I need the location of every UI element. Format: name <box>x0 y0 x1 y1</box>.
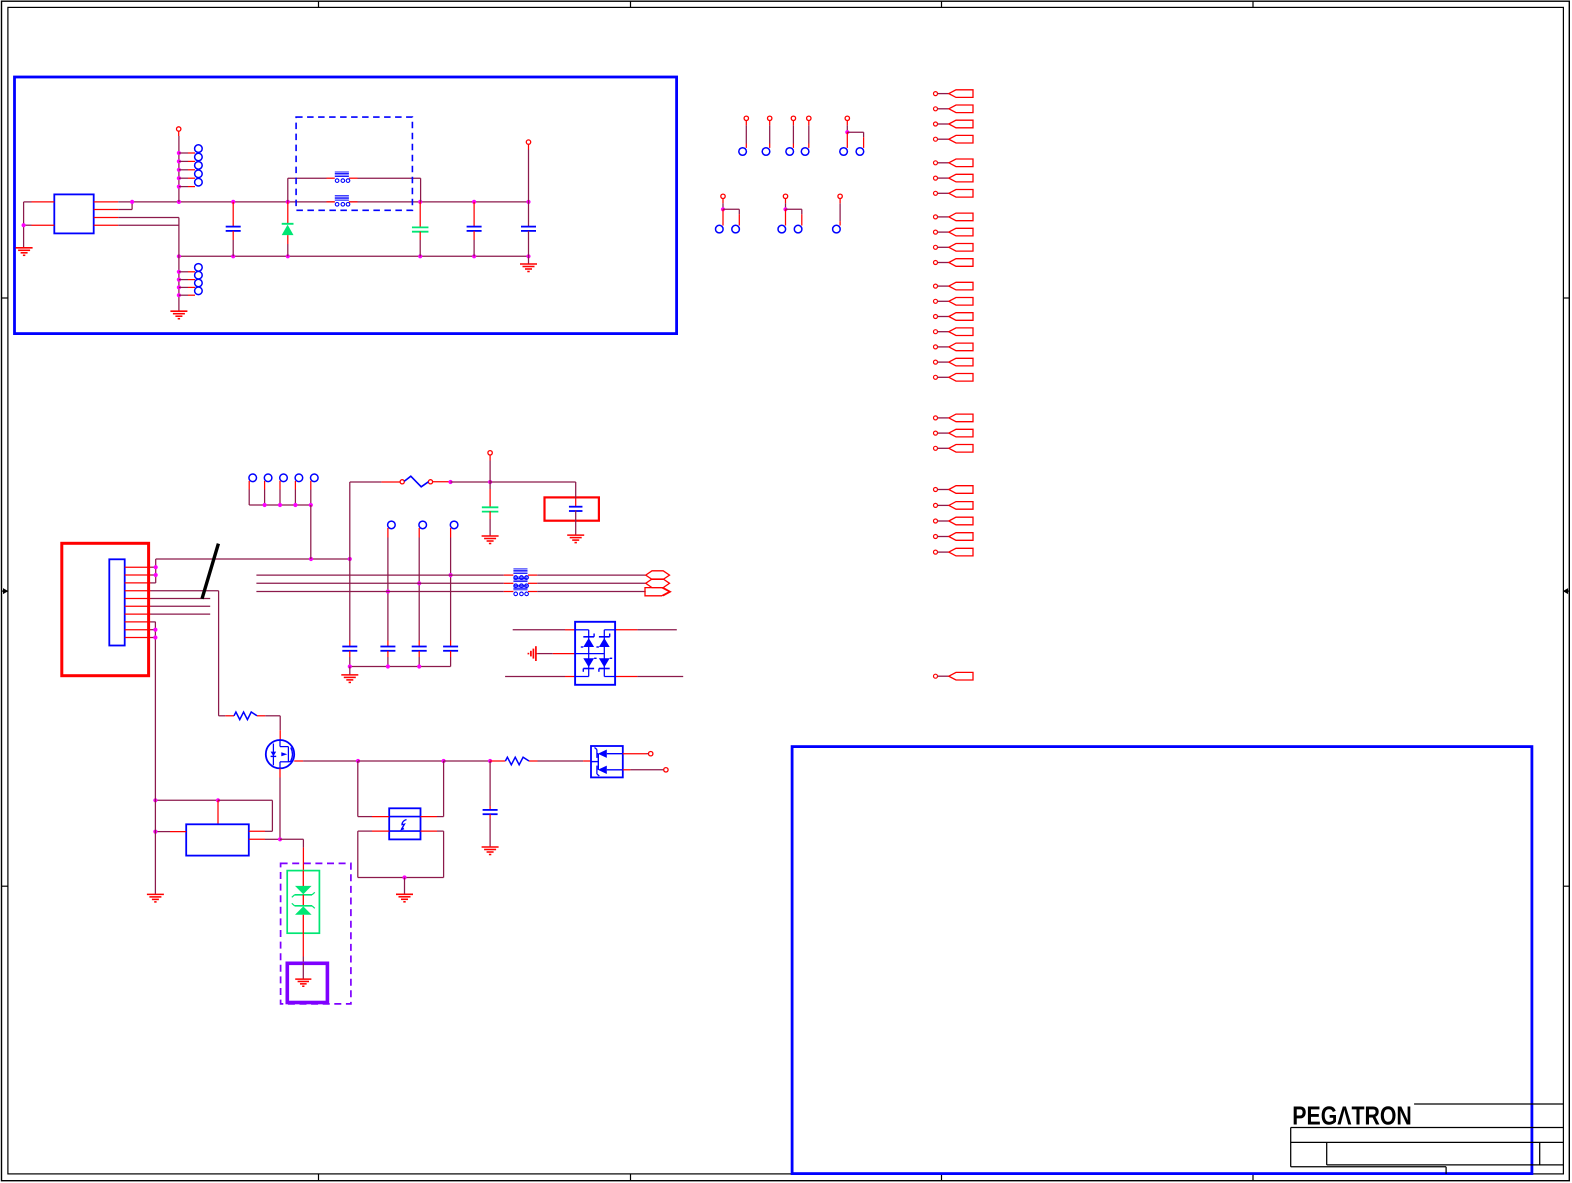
net flag N21 <box>934 445 974 453</box>
net flag N17 <box>934 358 974 366</box>
wire mains top <box>156 557 352 561</box>
wire J2 node vertical <box>154 559 158 583</box>
bridge diode DA <box>581 634 594 648</box>
wire phase A <box>256 574 645 576</box>
wire U2 left pin <box>153 830 186 834</box>
connector pin CN2 <box>762 116 772 155</box>
wire left rail <box>153 622 157 894</box>
wire J1 pin L2 <box>24 224 55 226</box>
wire zener mid <box>302 895 304 906</box>
no-connect slash <box>202 544 218 599</box>
wire cap bus <box>348 664 451 668</box>
bridge diode DC <box>583 658 596 672</box>
off-page flag W2 <box>646 579 670 588</box>
PEGATRON logo <box>1292 1102 1412 1130</box>
net flag N20 <box>934 429 974 437</box>
resistor R2 <box>490 757 591 765</box>
right centre arrow <box>1563 588 1568 594</box>
wire R1 to Q1 <box>257 716 280 740</box>
clamp dashed outline <box>281 863 351 1004</box>
net flag N5 <box>934 159 974 167</box>
wire J1 pin R2 <box>94 202 132 210</box>
title line C <box>1291 1141 1564 1143</box>
transistor Q1 body <box>266 740 294 768</box>
choke T1 winding B <box>335 196 350 206</box>
wire node vertical <box>177 218 181 311</box>
wire J1 left vertical <box>22 202 26 248</box>
wire J1 pin R4 <box>94 224 179 226</box>
border tick marks left/right <box>2 298 1570 886</box>
X-cap highlight box <box>545 497 599 520</box>
wire gate-drive feed <box>219 715 234 717</box>
off-page flag W1 <box>646 571 670 580</box>
wire U3 bottom rail <box>358 875 444 879</box>
wire J1 pin R3 <box>94 217 179 219</box>
wire J2 pin4 <box>151 591 219 716</box>
net flag N3 <box>934 120 974 128</box>
title line B <box>1291 1127 1564 1129</box>
diode D1 <box>282 202 294 256</box>
connector pin CN1 <box>739 116 749 155</box>
wire J2 pin5 <box>151 598 211 600</box>
net flag N11 <box>934 259 974 267</box>
off-page flag W3 <box>645 588 671 596</box>
pin header P2 (4 pins) <box>179 264 202 296</box>
svg-text:PEGΛTRON: PEGΛTRON <box>1292 1102 1412 1130</box>
wire return bus <box>177 254 531 258</box>
diode pack D2 outline <box>591 746 623 777</box>
net flag N4 <box>934 135 974 143</box>
resistor R1 <box>234 712 257 720</box>
connector pin CN4 <box>801 116 811 155</box>
wire bridge bottom right <box>615 676 683 678</box>
title line E <box>1291 1166 1446 1168</box>
wire ctrl vcc pin <box>217 800 219 824</box>
isolated ground box <box>287 963 327 1002</box>
wire phase B <box>256 582 645 584</box>
capacitor C8 <box>412 641 427 667</box>
capacitor C1 <box>226 202 241 256</box>
title vertical V3 <box>1539 1142 1541 1165</box>
terminal TP3 <box>488 451 492 482</box>
wire J2 pin2 <box>151 574 156 576</box>
connector J2 pins <box>125 567 151 637</box>
wire fuse right <box>433 480 576 484</box>
connector J2 body <box>109 559 124 645</box>
ground G3 <box>520 264 537 272</box>
wire U3 left top <box>358 761 389 817</box>
net flag N10 <box>934 244 974 252</box>
terminal TP5 <box>664 768 668 772</box>
wire bridge mid <box>537 653 575 655</box>
connector pin CN6 (dual) <box>716 194 740 233</box>
wire J1 pin L1 <box>24 201 55 203</box>
pin header P3 (5 pins) <box>249 474 318 505</box>
net flag N22 <box>934 486 974 494</box>
net flag N26 <box>934 548 974 556</box>
ground G2 <box>170 311 187 319</box>
net flag N16 <box>934 343 974 351</box>
connector pin CN8 <box>833 194 843 233</box>
wire header P3 bus <box>249 503 313 507</box>
capacitor C11 <box>483 761 498 847</box>
bridge diode DD <box>599 658 612 672</box>
choke T1 dashed outline <box>296 117 412 210</box>
wire gate to clamp <box>280 839 303 870</box>
net flag N15 <box>934 328 974 336</box>
wire header vertical <box>177 136 181 202</box>
capacitor C2 <box>412 202 429 256</box>
notes block outline <box>792 747 1532 1174</box>
ground G1 <box>16 248 33 256</box>
net flag N14 <box>934 313 974 321</box>
wire P4a down <box>386 538 390 641</box>
wire AC bus <box>118 200 530 204</box>
title line A <box>1414 1103 1563 1105</box>
bridge internal wiring <box>575 630 615 677</box>
wire iso ground stub <box>302 963 304 978</box>
net flag N19 <box>934 414 974 422</box>
border tick marks top/bottom <box>319 1 1254 1181</box>
wire fuse left <box>350 481 400 483</box>
wire choke loop <box>288 178 421 202</box>
wire phase C <box>256 591 645 593</box>
zener pair box <box>287 871 319 934</box>
net flag N12 <box>934 282 974 290</box>
wire bridge bottom left <box>505 676 575 678</box>
left centre arrow <box>3 588 8 594</box>
wire U3 right bottom <box>421 831 444 877</box>
ground G6 <box>567 535 584 543</box>
wire fuse feed <box>349 482 351 559</box>
terminal TP4 <box>649 752 653 756</box>
wire J1 pin R1 <box>94 201 119 203</box>
wire bridge top left <box>513 629 575 631</box>
wire Q1 gate <box>279 768 281 839</box>
capacitor C5 <box>482 482 499 536</box>
net flag N27 <box>934 672 974 680</box>
choke T1 winding A <box>335 172 350 182</box>
title notch <box>1445 1167 1447 1174</box>
wire J2 pin1 <box>151 566 156 568</box>
wire J2 pin9 <box>151 629 156 631</box>
ground G10 <box>295 979 311 986</box>
net flag N23 <box>934 502 974 510</box>
zener Z2 <box>292 903 315 915</box>
capacitor C6 <box>569 482 583 535</box>
wire D2 out top <box>623 753 649 755</box>
wire C4 to ground <box>528 256 530 263</box>
net flag N8 <box>934 213 974 221</box>
capacitor C4 <box>521 150 536 257</box>
connector J1 <box>54 194 93 233</box>
bridge rectifier BD1 outline <box>575 622 615 685</box>
wire U3 left bottom <box>358 831 389 877</box>
net flag N6 <box>934 174 974 182</box>
wire J2 pin3 <box>151 582 156 584</box>
wire Q1 source <box>294 759 492 763</box>
diode pack D2 internals <box>591 748 623 777</box>
capacitor C10 <box>342 559 357 667</box>
title vertical V1 <box>1290 1128 1292 1167</box>
capacitor C3 <box>467 202 482 256</box>
wire cap bus ground stub <box>349 667 351 675</box>
terminal TP1 <box>177 127 181 136</box>
wire zener top lead <box>302 871 304 887</box>
zener Z1 <box>292 886 315 897</box>
connector pin CN3 <box>786 116 796 155</box>
wire J2 pin6 <box>151 605 211 607</box>
choke T2 winding A <box>513 569 528 579</box>
pin header P4 (3 pins) <box>388 521 458 537</box>
wire rail ground stub <box>404 878 406 894</box>
pin header P1 (5 pins) <box>179 145 202 187</box>
wire P3 to mains top <box>310 505 312 559</box>
wire D2 out bottom <box>623 769 664 771</box>
connector pin CN7 (dual) <box>778 194 802 233</box>
choke T2 winding B <box>513 577 528 587</box>
bridge diode DB <box>596 634 609 648</box>
wire U2 gate pin <box>249 837 282 841</box>
wire P4b down <box>417 538 421 641</box>
wire J2 pin8 <box>151 621 156 623</box>
EMI filter block outline <box>15 77 677 334</box>
wire U3 right top <box>421 761 444 817</box>
wire zener bottom lead <box>302 915 304 964</box>
controller U2 <box>186 824 249 855</box>
net flag N9 <box>934 228 974 236</box>
net flag N25 <box>934 533 974 541</box>
choke T2 winding C <box>513 585 528 595</box>
wire P4c down <box>449 538 453 641</box>
net flag N2 <box>934 105 974 113</box>
ground G5 <box>482 536 499 544</box>
capacitor C9 <box>443 641 458 667</box>
fuse F1 <box>400 476 433 487</box>
chassis ground G11 <box>528 646 537 661</box>
net flag N24 <box>934 517 974 525</box>
net flag N7 <box>934 190 974 198</box>
wire ctrl top <box>153 798 272 831</box>
ground G8 <box>396 894 413 902</box>
wire bridge top right <box>615 629 677 631</box>
net flag N18 <box>934 374 974 382</box>
ground G9 <box>147 894 164 902</box>
input connector J2 outline <box>62 543 149 675</box>
transistor Q1 internals <box>271 740 294 768</box>
capacitor C7 <box>380 641 395 667</box>
wire J2 pin7 <box>151 613 211 615</box>
ground G7 <box>482 847 499 855</box>
connector pin CN5 (dual) <box>840 116 864 155</box>
title vertical V2 <box>1326 1142 1328 1165</box>
ground G4 <box>341 675 358 683</box>
terminal TP2 <box>526 140 530 150</box>
wire J2 pin10 <box>151 637 156 639</box>
optocoupler U3 <box>389 808 420 839</box>
title line D <box>1327 1164 1564 1166</box>
net flag N1 <box>934 90 974 98</box>
net flag N13 <box>934 298 974 306</box>
wire U2 right top pin <box>249 830 273 832</box>
